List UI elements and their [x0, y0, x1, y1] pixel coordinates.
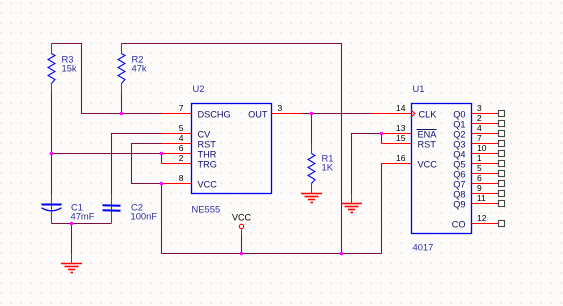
junction node R2 rail	[340, 252, 344, 256]
U1 pin 3 Q0	[453, 103, 504, 120]
svg-text:10: 10	[477, 143, 487, 153]
svg-text:Q2: Q2	[453, 130, 465, 140]
junction node C1 ground	[70, 222, 74, 226]
wire R3 top to DSCHG net	[52, 44, 162, 114]
VCC symbol	[232, 213, 252, 235]
ground below C1	[61, 254, 82, 273]
svg-text:ENA: ENA	[418, 130, 438, 140]
svg-text:13: 13	[396, 123, 406, 133]
svg-text:CLK: CLK	[419, 110, 438, 120]
wire ENA RST U1 to ground	[352, 134, 382, 194]
svg-text:4017: 4017	[413, 242, 434, 253]
svg-text:6: 6	[477, 173, 482, 183]
U1 pin 12 CO	[452, 213, 505, 230]
junction node THR TRG	[160, 152, 164, 156]
svg-text:VCC: VCC	[198, 180, 218, 190]
wire U2 VCC pin to rail	[161, 184, 163, 254]
svg-text:DSCHG: DSCHG	[198, 110, 231, 120]
svg-text:Q5: Q5	[453, 160, 465, 170]
wire R3 bottom to C1 top	[51, 94, 53, 194]
svg-text:VCC: VCC	[232, 213, 252, 223]
U2 pin 8 VCC	[162, 173, 218, 190]
svg-text:2: 2	[179, 153, 184, 163]
wire R1 top	[311, 114, 313, 144]
svg-text:4: 4	[477, 123, 482, 133]
U1 pin 10 Q4	[453, 143, 504, 160]
svg-text:2: 2	[477, 113, 482, 123]
wire THR net	[52, 153, 162, 155]
svg-text:Q8: Q8	[453, 190, 465, 200]
U1 pin 16 VCC	[382, 153, 438, 170]
resistor R2	[118, 44, 147, 94]
IC U1 4017 box	[412, 83, 472, 253]
svg-text:Q6: Q6	[453, 170, 465, 180]
svg-text:U1: U1	[413, 83, 425, 94]
U1 pin 7 Q3	[453, 133, 504, 150]
U2 pin 4 RST	[162, 133, 217, 150]
svg-text:4: 4	[179, 133, 184, 143]
junction node VCC rail	[240, 252, 244, 256]
wire ground drop below C1	[71, 224, 73, 254]
svg-text:NE555: NE555	[192, 204, 221, 215]
U2 pin 2 TRG	[162, 153, 217, 170]
junction node OUT R1	[310, 112, 314, 116]
capacitor C2	[103, 194, 158, 224]
svg-text:9: 9	[477, 183, 482, 193]
U1 pin 13 ENA	[382, 123, 438, 140]
svg-text:1K: 1K	[322, 162, 334, 173]
U1 pin 9 Q8	[453, 183, 504, 200]
svg-text:14: 14	[396, 103, 406, 113]
svg-text:RST: RST	[198, 140, 217, 150]
junction node RST VCC U2	[160, 182, 164, 186]
svg-text:100nF: 100nF	[131, 211, 158, 222]
svg-text:16: 16	[396, 153, 406, 163]
svg-text:6: 6	[179, 143, 184, 153]
svg-text:1: 1	[477, 153, 482, 163]
U1 pin 15 RST	[382, 133, 437, 150]
capacitor C1	[42, 194, 95, 224]
svg-text:15: 15	[396, 133, 406, 143]
U1 pin 4 Q2	[453, 123, 504, 140]
junction node THR R3 C1	[50, 152, 54, 156]
svg-text:Q4: Q4	[453, 150, 465, 160]
U1 pin 11 Q9	[453, 193, 504, 210]
svg-text:Q1: Q1	[453, 120, 465, 130]
wire VCC symbol drop	[241, 235, 243, 254]
svg-text:Q7: Q7	[453, 180, 465, 190]
svg-text:CV: CV	[198, 130, 212, 140]
svg-text:7: 7	[477, 133, 482, 143]
wire bottom VCC rail	[162, 253, 382, 255]
svg-text:8: 8	[179, 173, 184, 183]
svg-text:3: 3	[477, 103, 482, 113]
svg-text:THR: THR	[198, 150, 217, 160]
svg-text:TRG: TRG	[198, 160, 217, 170]
svg-text:Q9: Q9	[453, 200, 465, 210]
svg-text:47mF: 47mF	[71, 211, 95, 222]
svg-text:Q3: Q3	[453, 140, 465, 150]
svg-text:7: 7	[179, 103, 184, 113]
svg-text:5: 5	[179, 123, 184, 133]
svg-text:3: 3	[278, 103, 283, 113]
svg-text:Q0: Q0	[453, 110, 465, 120]
U1 pin 6 Q7	[453, 173, 504, 190]
U1 pin 1 Q5	[453, 153, 504, 170]
svg-text:11: 11	[477, 193, 486, 203]
junction node DSCHG R2	[120, 112, 124, 116]
resistor R1	[308, 144, 334, 194]
wire U1 VCC pin to rail	[381, 164, 383, 254]
svg-text:RST: RST	[418, 140, 437, 150]
svg-text:U2: U2	[193, 83, 205, 94]
U2 pin 6 THR	[162, 143, 217, 160]
U1 pin 2 Q1	[453, 113, 504, 130]
U1 pin 14 CLK	[372, 103, 438, 120]
U1 pin 5 Q6	[453, 163, 504, 180]
wire RST U2 to VCC net	[132, 144, 162, 184]
wire C1 C2 bottom	[52, 223, 112, 225]
svg-text:CO: CO	[452, 220, 466, 230]
wire THR to TRG	[161, 154, 163, 164]
svg-text:VCC: VCC	[418, 160, 438, 170]
op-amp U2 NE555 box	[192, 83, 272, 215]
wire CV to C2	[112, 134, 162, 194]
svg-text:47k: 47k	[132, 63, 147, 74]
U2 pin 5 CV	[162, 123, 212, 140]
wire OUT to CLK	[302, 113, 372, 115]
junction node ENA RST U1	[380, 132, 384, 136]
svg-text:OUT: OUT	[248, 110, 268, 120]
svg-text:15k: 15k	[62, 63, 77, 74]
svg-text:5: 5	[477, 163, 482, 173]
ground for ENA RST	[341, 194, 362, 213]
wire R2 bottom to DSCHG node	[121, 94, 123, 114]
resistor R3	[48, 44, 77, 94]
U2 pin 3 OUT	[248, 103, 301, 120]
wire R2 top to VCC rail	[122, 44, 342, 254]
ground below R1	[301, 194, 322, 203]
U2 pin 7 DSCHG	[162, 103, 231, 120]
svg-text:12: 12	[477, 213, 487, 223]
